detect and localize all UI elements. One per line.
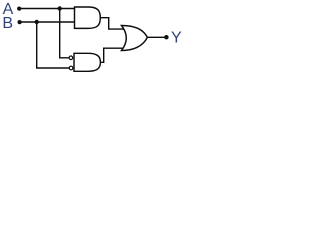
wire: input A horizontal [19, 8, 75, 10]
node: A branch junction [58, 6, 62, 10]
OR gate U3 (output Y) [122, 26, 148, 51]
bubble: U2 lower input inverter [69, 66, 73, 70]
wire: U1 output to OR top input [100, 18, 125, 29]
wire: A branch down to U2 upper input [60, 9, 69, 58]
bubble: U2 upper input inverter [69, 56, 73, 60]
node A terminal dot [17, 6, 21, 10]
wire: U2 output to OR bottom input [100, 48, 124, 62]
wire: OR output to Y [147, 36, 167, 38]
svg-text:Y: Y [171, 30, 182, 47]
AND gate U2 with inverted inputs (inputs NOT-A, NOT-B) [74, 53, 100, 71]
svg-text:B: B [2, 15, 13, 32]
node B terminal dot [17, 20, 21, 24]
background [0, 0, 183, 77]
wire: input B horizontal [19, 21, 75, 23]
node: B branch junction [35, 20, 39, 24]
wire: B branch down to U2 lower input [37, 22, 69, 68]
AND gate U1 (inputs A, B) [75, 7, 101, 28]
node Y terminal dot [164, 35, 169, 40]
